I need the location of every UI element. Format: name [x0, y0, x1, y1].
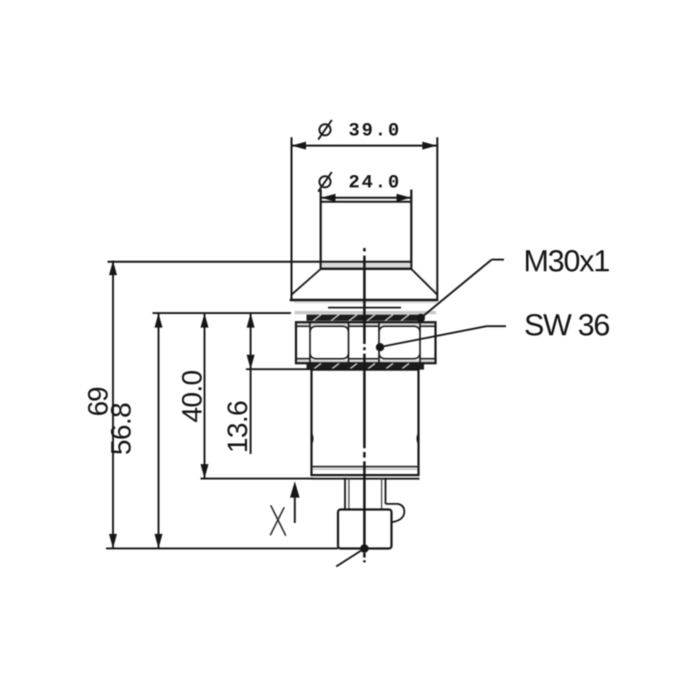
- bottom leader diagonal: [336, 544, 369, 566]
- leader M30x1: [417, 260, 504, 323]
- label M30x1: [526, 250, 609, 272]
- locknut SW36: [296, 322, 436, 363]
- extension line y=369 (13.6 bottom): [246, 368, 312, 370]
- label SW 36: [525, 314, 609, 336]
- dimension 69 (left outer): [88, 261, 117, 549]
- connector latch loop: [386, 504, 405, 522]
- dimension text ø 39.0: [318, 120, 398, 140]
- extension line (69 top) merging with cap bottom: [108, 261, 412, 263]
- letter X: [270, 505, 286, 535]
- extension line bottom y=548.5: [106, 547, 338, 549]
- shoulder line above thread: [328, 307, 401, 309]
- centerline (dash-dot): [363, 248, 366, 562]
- leader SW 36: [376, 326, 506, 351]
- thread band lower (dark with hatch): [307, 363, 425, 369]
- dimension 56.8: [111, 313, 163, 548]
- connector neck: [345, 478, 386, 510]
- dimension 13.6: [227, 313, 254, 454]
- bezel cone: [292, 269, 438, 295]
- flange bottom edge: [290, 300, 438, 303]
- extension line y=478 (40.0 bottom): [201, 478, 314, 480]
- dimension text ø 24.0: [318, 172, 398, 192]
- extension line y=313 (top of nut): [153, 312, 292, 314]
- dimension 40.0: [182, 313, 209, 479]
- dimension line ø24 with arrows: [321, 194, 411, 202]
- X reference arrow: [290, 481, 300, 523]
- thread band upper (dark with hatch): [307, 315, 425, 321]
- connector block: [338, 510, 392, 549]
- push-button cap: [321, 190, 412, 270]
- dimension line ø39 with arrows: [292, 137, 438, 301]
- sensor body: [312, 370, 420, 479]
- washer grey strip: [295, 311, 437, 314]
